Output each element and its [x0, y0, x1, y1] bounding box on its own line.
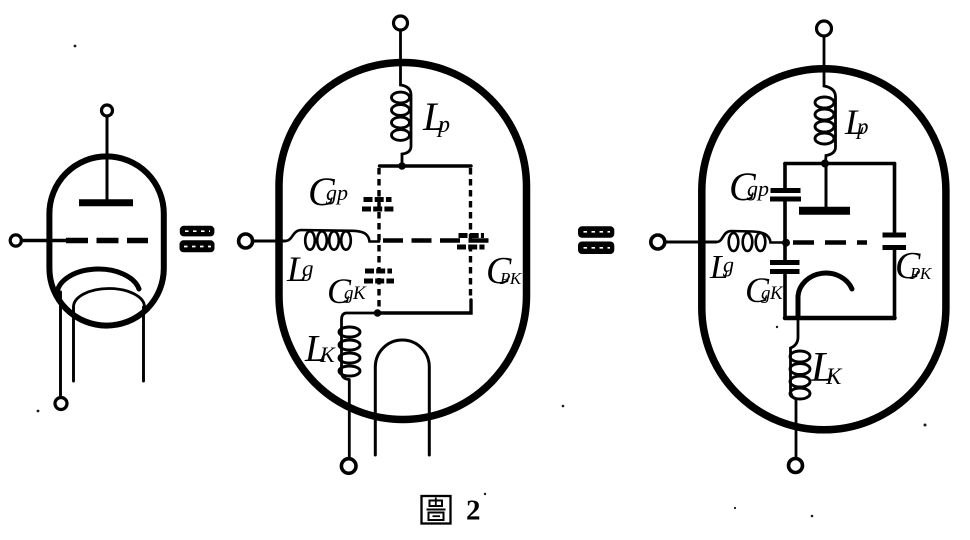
svg-text:2: 2 — [466, 495, 481, 527]
svg-text:PK: PK — [499, 269, 523, 288]
svg-text:p: p — [436, 112, 450, 138]
svg-text:gK: gK — [761, 283, 784, 304]
svg-text:gp: gp — [326, 180, 348, 205]
svg-text:gp: gp — [747, 176, 769, 201]
svg-text:PK: PK — [909, 264, 933, 283]
svg-text:K: K — [825, 364, 843, 389]
svg-text:g: g — [302, 256, 314, 281]
svg-text:K: K — [319, 342, 336, 367]
svg-text:gK: gK — [344, 283, 367, 304]
svg-text:p: p — [855, 114, 869, 139]
svg-text:g: g — [723, 252, 734, 277]
